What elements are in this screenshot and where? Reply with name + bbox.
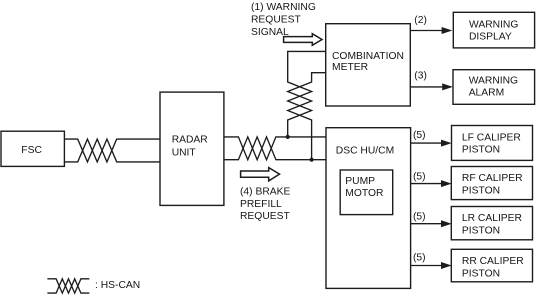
svg-text:(5): (5) — [413, 212, 426, 223]
svg-text:FSC: FSC — [21, 145, 42, 156]
svg-text:REQUEST: REQUEST — [251, 15, 301, 26]
svg-text:PISTON: PISTON — [462, 225, 500, 236]
svg-text:(5): (5) — [413, 130, 426, 141]
svg-text:ALARM: ALARM — [469, 88, 504, 99]
svg-text:PISTON: PISTON — [462, 145, 500, 156]
box RF CALIPER PISTON — [451, 167, 532, 200]
svg-text:UNIT: UNIT — [172, 147, 197, 158]
svg-text:MOTOR: MOTOR — [345, 188, 383, 199]
svg-text:: HS-CAN: : HS-CAN — [95, 280, 140, 291]
svg-text:PREFILL: PREFILL — [240, 199, 282, 210]
svg-text:(4) BRAKE: (4) BRAKE — [240, 186, 290, 197]
svg-text:RADAR: RADAR — [172, 135, 208, 146]
box LF CALIPER PISTON — [452, 126, 533, 161]
legend HS-CAN twisted-pair symbol — [47, 279, 89, 293]
box DSC HU/CM — [326, 128, 411, 289]
box RADAR UNIT — [160, 92, 224, 205]
arrow (5) to RR caliper piston — [411, 265, 442, 267]
svg-text:WARNING: WARNING — [469, 20, 518, 31]
box WARNING DISPLAY — [453, 12, 534, 48]
svg-text:WARNING: WARNING — [469, 75, 518, 86]
arrow (3) to WARNING ALARM — [410, 86, 442, 88]
svg-text:(2): (2) — [414, 15, 427, 26]
svg-text:RF CALIPER: RF CALIPER — [462, 173, 523, 184]
wire branch to COMBINATION METER upper (vertical twisted pair left conductor) — [288, 51, 326, 136]
hollow arrow brake prefill request — [241, 168, 280, 181]
svg-text:(5): (5) — [413, 172, 426, 183]
svg-text:(5): (5) — [413, 253, 426, 264]
svg-text:METER: METER — [332, 62, 368, 73]
arrow (5) to LF caliper piston — [411, 142, 442, 144]
svg-text:(3): (3) — [414, 70, 427, 81]
svg-text:DISPLAY: DISPLAY — [469, 31, 512, 42]
arrow (5) to RF caliper piston — [411, 183, 442, 185]
svg-text:LF CALIPER: LF CALIPER — [462, 133, 521, 144]
svg-text:REQUEST: REQUEST — [240, 211, 290, 222]
box COMBINATION METER — [326, 24, 411, 106]
box PUMP MOTOR — [340, 170, 393, 215]
svg-text:(1) WARNING: (1) WARNING — [251, 2, 316, 13]
svg-text:COMBINATION: COMBINATION — [332, 51, 404, 62]
wire branch to COMBINATION METER lower (vertical twisted pair right conductor) — [288, 73, 326, 160]
hollow arrow warning request signal — [284, 34, 322, 46]
junction dot on upper wire — [286, 135, 290, 139]
arrow (2) to WARNING DISPLAY — [410, 30, 442, 32]
svg-text:LR CALIPER: LR CALIPER — [462, 213, 522, 224]
box LR CALIPER PISTON — [451, 207, 532, 240]
box FSC — [1, 131, 64, 166]
svg-text:PISTON: PISTON — [462, 268, 500, 279]
wire twisted-pair FSC to RADAR UNIT (HS-CAN) — [64, 139, 160, 162]
svg-text:RR CALIPER: RR CALIPER — [462, 256, 524, 267]
junction dot on lower wire — [310, 158, 314, 162]
wire twisted-pair RADAR UNIT to DSC HU/CM (HS-CAN) — [224, 137, 327, 160]
box RR CALIPER PISTON — [451, 249, 532, 281]
box WARNING ALARM — [453, 70, 535, 105]
arrow (5) to LR caliper piston — [411, 223, 442, 225]
svg-text:PUMP: PUMP — [345, 176, 375, 187]
svg-text:PISTON: PISTON — [462, 185, 500, 196]
svg-text:DSC HU/CM: DSC HU/CM — [336, 146, 394, 157]
